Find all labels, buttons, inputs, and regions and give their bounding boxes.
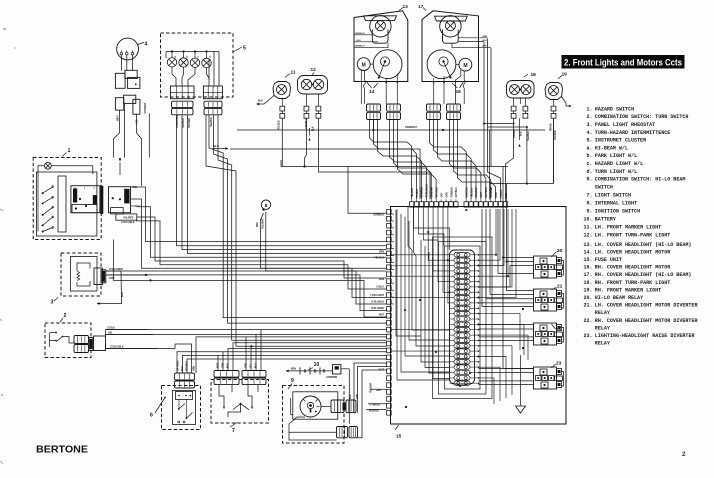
wires: feeds to relay 22 (479, 324, 534, 340)
svg-text:COMBINATION SWITCH: TURN SWITC: COMBINATION SWITCH: TURN SWITCH (595, 113, 689, 120)
wires: rheostat outputs to fuse unit (106, 240, 387, 318)
wires: instrument cluster leads staircase to band 2 (206, 115, 387, 348)
wire bus y183 (RH lights to fuse unit) (490, 118, 554, 199)
svg-text:GRN/WHT: GRN/WHT (432, 186, 434, 198)
label 7 (230, 423, 237, 435)
headlight 13 bulb (370, 16, 391, 44)
svg-text:YEL/BLK: YEL/BLK (412, 187, 414, 197)
hi-lo switch connectors above box (175, 373, 195, 388)
svg-text:21: 21 (557, 284, 563, 290)
svg-text:RELAY: RELAY (595, 309, 610, 316)
svg-text:BLK: BLK (121, 292, 124, 297)
light switch contacts (219, 385, 258, 417)
svg-text:LH. COVER HEADLIGHT MOTOR DIVE: LH. COVER HEADLIGHT MOTOR DIVERTER (595, 302, 698, 309)
wires: headlight 13/17 connectors to top strip (fan) (370, 120, 496, 200)
svg-text:5: 5 (243, 46, 246, 52)
svg-text:20.: 20. (584, 294, 593, 301)
hazard switch inner frame (36, 172, 97, 236)
label 1 (62, 148, 71, 157)
top strip wire labels (rotated) (412, 184, 508, 198)
component 5: instrument cluster (dashed box) (161, 33, 234, 97)
svg-text:LT.BLU/RED: LT.BLU/RED (371, 308, 385, 310)
rheostat inner box and resistor (71, 257, 98, 292)
wire: GRN/BLK stub into fuse unit top-left (348, 167, 387, 214)
svg-text:GRN: GRN (379, 279, 384, 281)
wires: feeds to relay 21 (479, 209, 534, 307)
svg-text:CT.BLU/BLK: CT.BLU/BLK (427, 184, 429, 198)
svg-text:RH. FRONT MARKER LIGHT: RH. FRONT MARKER LIGHT (595, 286, 662, 293)
svg-text:11.: 11. (584, 224, 593, 231)
svg-text:RH. COVER HEADLIGHT MOTOR DIVE: RH. COVER HEADLIGHT MOTOR DIVERTER (595, 317, 698, 324)
wires: component 4 down to hazard switch (114, 103, 150, 186)
svg-text:CYN/RED: CYN/RED (370, 405, 381, 407)
svg-text:LT.BLU/BLK: LT.BLU/BLK (371, 302, 384, 304)
marker light connector squares (278, 99, 284, 131)
svg-text:FUSE UNIT: FUSE UNIT (595, 256, 623, 263)
svg-text:YEL/WHT: YEL/WHT (371, 382, 373, 393)
svg-text:BLK: BLK (258, 100, 263, 103)
svg-text:7.: 7. (587, 192, 593, 199)
svg-text:PNK/W: PNK/W (551, 123, 553, 131)
svg-text:M: M (463, 63, 467, 69)
wires from node 8 down to fuse unit (257, 212, 387, 271)
svg-text:IGNITION SWITCH: IGNITION SWITCH (595, 208, 641, 215)
label 14 with leaders (366, 81, 378, 95)
svg-text:TURN-HAZARD INTERMITTENCE: TURN-HAZARD INTERMITTENCE (595, 129, 671, 136)
svg-text:10: 10 (314, 362, 320, 368)
svg-text:1.: 1. (587, 106, 593, 113)
label 5 (233, 46, 246, 53)
svg-text:8.: 8. (587, 200, 593, 207)
junction dots inside fuse unit (404, 209, 509, 387)
svg-text:16.: 16. (584, 264, 593, 271)
svg-text:12: 12 (311, 67, 317, 73)
svg-text:6: 6 (150, 413, 153, 419)
svg-text:GRN/BRN: GRN/BRN (326, 377, 337, 379)
legend list (584, 106, 698, 347)
svg-text:GRN: GRN (496, 192, 498, 197)
marker light BLK arrow (256, 96, 274, 106)
connector stack below component 4 (115, 70, 139, 88)
fuse strip nested wire loops (433, 237, 493, 399)
svg-text:BLU: BLU (483, 40, 488, 42)
svg-text:22.: 22. (584, 317, 593, 324)
label 15 (395, 425, 402, 440)
svg-text:3.: 3. (587, 121, 593, 128)
svg-text:BATTERY: BATTERY (595, 216, 616, 223)
headlight assembly 17 (RH) outline (418, 4, 479, 82)
svg-text:RH. COVER HEADLIGHT MOTOR: RH. COVER HEADLIGHT MOTOR (595, 264, 671, 271)
svg-text:GRY: GRY (483, 46, 488, 48)
component 18 connector squares (511, 98, 530, 147)
svg-text:HI-BEAM W/L: HI-BEAM W/L (595, 144, 629, 151)
cluster cup connectors below box (172, 101, 223, 115)
svg-text:17.: 17. (584, 271, 593, 278)
headlight 17 bulb (440, 16, 461, 44)
label 2 (60, 313, 67, 322)
battery 10 (286, 362, 338, 379)
relay 22 (534, 323, 563, 345)
svg-text:GRN/BLU: GRN/BLU (466, 187, 468, 198)
hazard switch right connector (109, 187, 137, 221)
svg-text:BLK: BLK (350, 394, 352, 399)
component 6: combination switch hi-lo beam (dashed box) (162, 386, 201, 430)
wire labels above light switch (218, 362, 258, 368)
svg-text:LH. COVER HEADLIGHT MOTOR: LH. COVER HEADLIGHT MOTOR (595, 248, 671, 255)
wire band 2 lower nest (175, 337, 387, 373)
svg-text:19: 19 (562, 72, 568, 78)
headlight 17 bulb feed wires to right (452, 36, 491, 48)
ground symbol inside fuse unit (516, 355, 526, 413)
relay 21 (534, 284, 563, 312)
svg-text:15.: 15. (584, 256, 593, 263)
svg-text:WHT: WHT (481, 192, 483, 198)
svg-text:BLK: BLK (521, 131, 523, 136)
svg-text:YEL/BLK: YEL/BLK (278, 120, 280, 130)
svg-text:LT.BLU/BLK: LT.BLU/BLK (110, 345, 124, 348)
svg-text:CT.BLU/BLK: CT.BLU/BLK (177, 114, 179, 128)
svg-text:PNK: PNK (132, 186, 137, 189)
headlight 13 connector pairs (367, 104, 401, 120)
component 12: LH front turn-park light (298, 67, 328, 94)
svg-text:22: 22 (556, 326, 562, 332)
svg-text:23.: 23. (584, 332, 593, 339)
marker light 19 arrow right (562, 97, 572, 108)
svg-text:14: 14 (369, 89, 375, 95)
svg-text:GRN/BLK: GRN/BLK (476, 187, 478, 198)
svg-text:13.: 13. (584, 241, 593, 248)
svg-text:2. Front Lights and Motors Cct: 2. Front Lights and Motors Ccts (564, 57, 682, 68)
connector stack 2 below component 4 (115, 95, 147, 124)
svg-text:a.: a. (587, 144, 593, 151)
svg-text:10.: 10. (584, 216, 593, 223)
component 11: LH front marker light (273, 70, 296, 99)
cluster warning lamps a-d (166, 50, 219, 67)
svg-text:HAZARD SWITCH: HAZARD SWITCH (595, 106, 635, 113)
svg-text:7: 7 (232, 428, 235, 434)
svg-text:YEL/BLK: YEL/BLK (211, 117, 213, 127)
wire labels above hi-lo switch (178, 360, 196, 371)
fusible link box (333, 365, 350, 374)
headlight 13 reflector bar (364, 16, 397, 21)
component 9: ignition switch (dashed box) (283, 386, 345, 444)
svg-text:1: 1 (68, 148, 71, 154)
ignition switch lower connectors (289, 417, 358, 438)
svg-text:21.: 21. (584, 302, 593, 309)
svg-text:LH. COVER HEADLIGHT (HI-LO BEA: LH. COVER HEADLIGHT (HI-LO BEAM) (595, 241, 692, 248)
svg-text:5.: 5. (587, 137, 593, 144)
wires from rheostat with labels (97, 268, 149, 305)
svg-text:17: 17 (418, 4, 424, 10)
svg-text:12.: 12. (584, 231, 593, 238)
headlight 13 bulb feed wires + labels (355, 33, 389, 48)
svg-text:LT.BLU/BLK: LT.BLU/BLK (121, 221, 135, 224)
svg-text:3: 3 (51, 300, 54, 306)
hazard switch pilot bulb (38, 162, 93, 178)
svg-text:LT.BLU: LT.BLU (501, 189, 503, 197)
svg-text:INTERNAL LIGHT: INTERNAL LIGHT (595, 200, 638, 207)
relay 23 (534, 361, 563, 390)
svg-text:GRY/RED: GRY/RED (178, 360, 180, 371)
title bar: 2. Front Lights and Motors Ccts (562, 55, 685, 69)
wires: relay right pins down chain (562, 261, 564, 387)
component 4: turn-hazard intermittence unit (117, 38, 148, 60)
svg-text:YEL/WHT: YEL/WHT (262, 218, 264, 229)
svg-text:GRN/BLU: GRN/BLU (355, 46, 365, 48)
headlight 17 cover motor M (456, 58, 472, 71)
svg-text:14.: 14. (584, 248, 593, 255)
component 19 connector squares (551, 100, 557, 141)
svg-text:CT.BLU: CT.BLU (132, 205, 141, 208)
svg-text:6.: 6. (587, 176, 593, 183)
ignition switch connectors right (321, 400, 356, 413)
svg-text:YEL/BLK: YEL/BLK (528, 131, 530, 141)
svg-text:GRN: GRN (483, 36, 488, 38)
rheostat connector (94, 268, 106, 285)
svg-text:LT.BLU: LT.BLU (107, 326, 115, 329)
svg-text:YEL/RED: YEL/RED (123, 216, 134, 219)
fuse strip outline (450, 250, 475, 384)
svg-text:GRN/BLU: GRN/BLU (355, 33, 365, 35)
wires: hazard switch outputs to fuse unit (band 1) (131, 187, 387, 298)
headlight 17 connector pairs (427, 104, 461, 120)
svg-text:COMBINATION SWITCH: HI-LO BEAM: COMBINATION SWITCH: HI-LO BEAM (595, 176, 686, 183)
wire labels right of ignition switch (350, 394, 359, 399)
wires: lamps to cluster connectors (172, 52, 219, 87)
svg-text:BERTONE: BERTONE (36, 445, 88, 456)
svg-text:GRN/BLK: GRN/BLK (451, 187, 453, 198)
svg-text:16: 16 (456, 89, 462, 95)
wire labels below cluster (177, 114, 213, 128)
relay 20 (534, 248, 563, 278)
component 1: hazard switch (dashed box) (33, 158, 101, 240)
svg-text:GRN/BLK: GRN/BLK (374, 215, 385, 217)
hazard switch connector assembly (58, 176, 103, 232)
svg-text:WHT/BLU: WHT/BLU (437, 187, 439, 198)
fuse unit top connector strip (410, 199, 508, 207)
component 18: RH front turn-park light (507, 72, 537, 98)
svg-text:CT.BLU: CT.BLU (417, 189, 419, 198)
svg-text:BLU: BLU (357, 40, 362, 42)
svg-text:GRN: GRN (291, 368, 297, 371)
svg-text:18: 18 (531, 72, 537, 78)
left column wire labels (369, 215, 385, 413)
svg-text:b.: b. (587, 152, 593, 159)
wire: PNK/W vertical near legend (551, 119, 554, 184)
svg-text:19.: 19. (584, 286, 593, 293)
headlight 17 lift mechanism (427, 50, 456, 79)
svg-text:LH. FRONT MARKER LIGHT: LH. FRONT MARKER LIGHT (595, 224, 662, 231)
fuse unit internal mesh horizontals (391, 214, 394, 304)
svg-text:RELAY: RELAY (595, 340, 610, 347)
label 6 (150, 397, 166, 419)
wires: right verticals to strip (483, 39, 528, 200)
turn switch connector pair (74, 336, 106, 353)
svg-text:13: 13 (403, 4, 409, 10)
wires: component 4 to connector (121, 55, 132, 71)
svg-text:11: 11 (291, 70, 296, 76)
wires: feeds to relay 23 (479, 369, 534, 385)
turn switch contacts (50, 332, 75, 347)
svg-text:2: 2 (64, 313, 67, 319)
fuse unit internal mesh right (479, 209, 529, 404)
svg-text:WHT: WHT (116, 115, 120, 121)
component 2: combination switch turn section (dashed box) (45, 323, 91, 358)
svg-text:ORN: ORN (446, 192, 448, 197)
svg-text:2.: 2. (587, 113, 593, 120)
svg-text:YEL/BLK: YEL/BLK (374, 258, 384, 260)
fuse unit internal mesh extra verticals (396, 207, 450, 378)
svg-text:YEL/BLU: YEL/BLU (471, 187, 473, 197)
svg-text:M: M (362, 62, 366, 68)
scan noise (left edge) (0, 29, 16, 464)
svg-text:LT.BLU/RED: LT.BLU/RED (109, 268, 123, 271)
label 3 (51, 298, 59, 306)
light switch connector strips (214, 371, 266, 385)
label 16 with leaders (452, 81, 464, 95)
wires: instrument cluster leads down (band 1) (177, 115, 387, 254)
svg-text:RH. COVER HEADLIGHT (HI-LO BEA: RH. COVER HEADLIGHT (HI-LO BEAM) (595, 271, 692, 278)
svg-text:GRN/BLK: GRN/BLK (422, 187, 424, 198)
svg-text:4.: 4. (587, 129, 593, 136)
svg-text:SWITCH: SWITCH (595, 183, 613, 190)
wire: BLK feed to fuse unit strip (230, 149, 420, 199)
svg-text:PARK LIGHT W/L: PARK LIGHT W/L (595, 152, 638, 159)
svg-text:VIO: VIO (108, 331, 112, 334)
svg-text:18.: 18. (584, 279, 593, 286)
svg-text:c.: c. (587, 160, 593, 167)
svg-text:YEL/RED: YEL/RED (189, 118, 191, 128)
svg-text:YEL/BLU: YEL/BLU (183, 118, 185, 128)
svg-text:GRY/BLU: GRY/BLU (486, 187, 488, 198)
svg-text:RED/BLK: RED/BLK (369, 411, 380, 413)
svg-text:TURN LIGHT W/L: TURN LIGHT W/L (595, 168, 638, 175)
svg-text:RED: RED (376, 390, 381, 392)
svg-text:HI-LO BEAM RELAY: HI-LO BEAM RELAY (595, 294, 644, 301)
svg-text:WHT: WHT (379, 315, 385, 317)
wires: ignition/battery to fuse unit (289, 363, 391, 440)
component 3: panel light rheostat (dashed box) (61, 253, 101, 296)
svg-text:LIGHTING-HEADLIGHT RAISE DIVER: LIGHTING-HEADLIGHT RAISE DIVERTER (595, 332, 695, 339)
headlight 17 leads down with arrows (432, 70, 465, 104)
fuse unit left connector column (387, 210, 392, 416)
node 8: internal light feed (261, 200, 270, 212)
component 19: RH front marker light (545, 72, 567, 100)
svg-text:2: 2 (682, 451, 686, 458)
svg-text:RH. FRONT TURN-PARK LIGHT: RH. FRONT TURN-PARK LIGHT (595, 279, 671, 286)
wire bus y166 (marker/park lights to fuse unit) (281, 118, 508, 199)
up-arrow symbol above connector (119, 158, 122, 175)
svg-text:20: 20 (557, 248, 563, 254)
svg-text:4: 4 (145, 42, 148, 48)
svg-text:GRN/WHT: GRN/WHT (405, 126, 417, 129)
svg-text:d.: d. (587, 168, 593, 175)
svg-text:GRY: GRY (441, 192, 443, 197)
svg-text:15: 15 (396, 434, 402, 440)
svg-text:PANEL LIGHT RHEOSTAT: PANEL LIGHT RHEOSTAT (595, 121, 656, 128)
headlight 13 leads down with arrows (361, 70, 398, 104)
turn-park light connector squares (304, 94, 321, 141)
svg-text:RELAY: RELAY (595, 324, 610, 331)
headlight assembly 13 (LH) outline (354, 4, 408, 82)
fuse unit 15: main outline (391, 207, 567, 425)
instrument cluster connector grids (170, 86, 222, 99)
svg-text:9: 9 (291, 378, 294, 384)
svg-text:LH. FRONT TURN-PARK LIGHT: LH. FRONT TURN-PARK LIGHT (595, 231, 671, 238)
svg-text:CT.BLU: CT.BLU (514, 129, 516, 138)
hi-lo switch inner box and contacts (173, 391, 196, 425)
svg-text:GRN/RED: GRN/RED (491, 187, 493, 198)
svg-text:LIGHT SWITCH: LIGHT SWITCH (595, 192, 632, 199)
wires: light switch risers (218, 330, 387, 371)
hazard switch contacts (38, 178, 54, 233)
wire: GRN/WHT bus under headlights (237, 120, 545, 132)
wires: fuse unit bottom labels area (366, 389, 407, 409)
wires from turn switch with labels (106, 326, 159, 348)
ignition switch body (291, 392, 338, 419)
fuses (450, 253, 480, 386)
svg-text:LT.BLU: LT.BLU (376, 287, 384, 289)
svg-text:INSTRUMET CLUSTER: INSTRUMET CLUSTER (595, 137, 647, 144)
svg-text:GRN: GRN (194, 366, 196, 371)
wires: feeds to relay 20 (479, 167, 534, 369)
fuse unit internal mesh left (391, 207, 449, 380)
svg-text:23: 23 (556, 361, 562, 367)
wire labels right of hazard switch (121, 186, 140, 224)
svg-text:GRY/BLK: GRY/BLK (456, 187, 458, 198)
component 7: light switch (dashed box) (211, 380, 269, 424)
svg-text:LT.BLU/WHT: LT.BLU/WHT (370, 295, 384, 297)
svg-text:9.: 9. (587, 208, 593, 215)
svg-text:VIO/WHT: VIO/WHT (143, 102, 147, 114)
svg-text:YEL/BLK: YEL/BLK (555, 130, 557, 140)
svg-text:HAZARD LIGHT W/L: HAZARD LIGHT W/L (595, 160, 644, 167)
svg-text:8: 8 (265, 203, 268, 208)
BLK arrow (cluster feed) (213, 144, 229, 150)
headlight 13 cover motor M (357, 58, 373, 71)
headlight 17 reflector bar (435, 16, 468, 21)
label 9 (288, 378, 294, 389)
wires: turn switch outputs to fuse unit (band 2) (106, 330, 387, 349)
headlight 13 lift mechanism (373, 50, 402, 79)
svg-text:PNK: PNK (257, 222, 259, 227)
